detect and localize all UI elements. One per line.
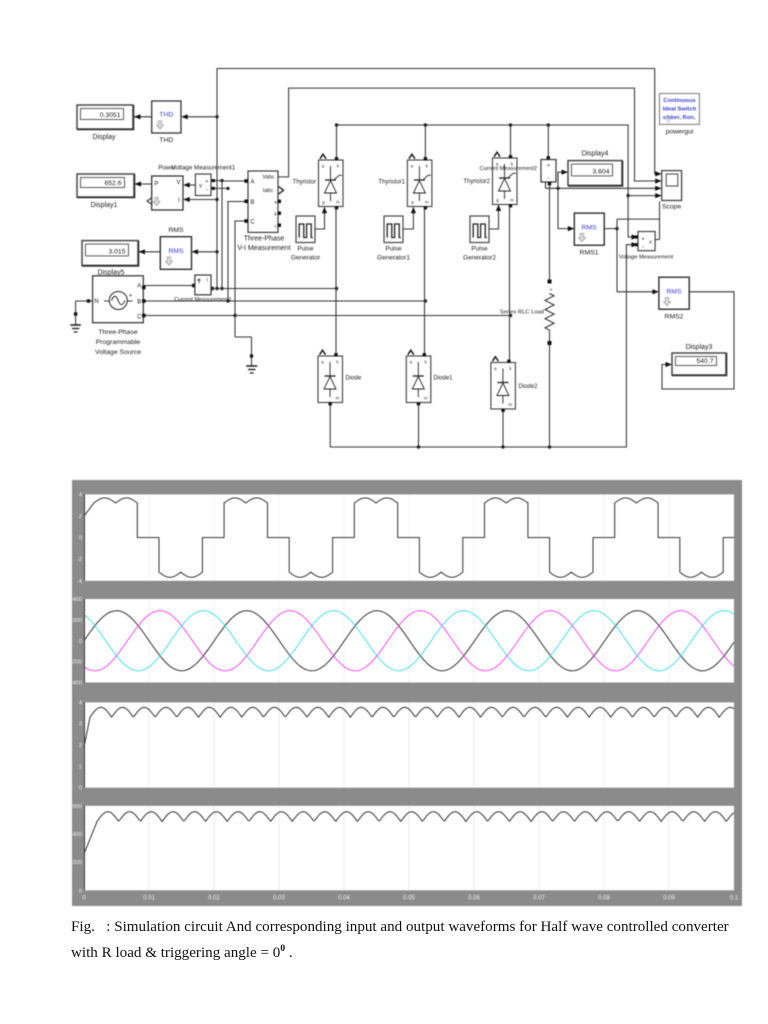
svg-text:652.6: 652.6 <box>104 180 121 187</box>
svg-text:0: 0 <box>79 888 82 894</box>
svg-text:0.09: 0.09 <box>663 896 675 902</box>
svg-text:Continuous: Continuous <box>663 98 695 104</box>
svg-text:THD: THD <box>159 112 173 119</box>
svg-text:-2: -2 <box>77 557 82 563</box>
svg-text:N: N <box>94 299 98 305</box>
svg-text:Diode1: Diode1 <box>434 376 454 382</box>
svg-text:m: m <box>336 396 340 401</box>
svg-text:0.1: 0.1 <box>730 896 739 902</box>
svg-text:powergui: powergui <box>666 129 694 136</box>
svg-text:m: m <box>425 200 429 205</box>
svg-text:600: 600 <box>72 804 82 810</box>
svg-text:1: 1 <box>79 764 82 770</box>
svg-text:Iabc: Iabc <box>263 188 274 194</box>
svg-text:Pulse: Pulse <box>297 246 314 253</box>
svg-text:0: 0 <box>79 536 82 542</box>
svg-text:3: 3 <box>79 722 82 728</box>
svg-text:+: + <box>642 237 645 243</box>
svg-text:+: + <box>547 163 550 169</box>
svg-text:-: - <box>642 245 644 251</box>
svg-text:m: m <box>424 396 428 401</box>
svg-text:Current Measurement1: Current Measurement1 <box>174 297 232 303</box>
svg-text:Current Measurement2: Current Measurement2 <box>479 166 537 172</box>
svg-text:3.015: 3.015 <box>108 248 125 255</box>
svg-text:0.05: 0.05 <box>403 896 415 902</box>
svg-text:Ideal Switch: Ideal Switch <box>663 107 697 113</box>
svg-text:200: 200 <box>72 860 82 866</box>
svg-text:V: V <box>176 180 180 186</box>
svg-text:-400: -400 <box>72 681 82 687</box>
svg-text:Series RLC Load: Series RLC Load <box>500 310 544 316</box>
svg-text:Display: Display <box>93 134 116 141</box>
svg-text:+: + <box>129 294 133 300</box>
svg-text:+: + <box>549 288 552 294</box>
svg-text:Programmable: Programmable <box>96 339 141 346</box>
svg-text:400: 400 <box>72 832 82 838</box>
svg-text:Generator2: Generator2 <box>463 255 496 262</box>
svg-text:RMS: RMS <box>168 227 184 234</box>
svg-text:Scope: Scope <box>662 204 681 211</box>
svg-text:Voltage Source: Voltage Source <box>95 349 141 356</box>
svg-text:0.07: 0.07 <box>533 896 545 902</box>
svg-text:C: C <box>250 220 255 226</box>
svg-text:ubber, Ron,: ubber, Ron, <box>664 115 696 121</box>
svg-text:0.03: 0.03 <box>273 896 285 902</box>
svg-text:0.06: 0.06 <box>468 896 480 902</box>
svg-text:Voltage Measurement: Voltage Measurement <box>619 255 674 261</box>
svg-text:Pulse: Pulse <box>471 246 488 253</box>
svg-text:P: P <box>154 182 158 188</box>
svg-text:Voltage Measurement1: Voltage Measurement1 <box>172 165 236 172</box>
svg-text:RMS: RMS <box>581 225 597 232</box>
svg-text:Display3: Display3 <box>686 344 713 351</box>
svg-text:m: m <box>509 402 513 407</box>
svg-text:0.04: 0.04 <box>338 896 350 902</box>
svg-text:RMS: RMS <box>666 289 682 296</box>
svg-text:-: - <box>547 175 549 182</box>
svg-text:-: - <box>206 188 208 194</box>
svg-text:-4: -4 <box>77 579 83 585</box>
svg-text:Thyristor: Thyristor <box>293 180 316 186</box>
svg-text:RMS1: RMS1 <box>580 250 599 257</box>
svg-text:RMS2: RMS2 <box>665 314 684 321</box>
svg-text:Diode: Diode <box>346 376 362 382</box>
svg-text:Vabc: Vabc <box>262 175 274 181</box>
svg-text:i: i <box>206 278 207 284</box>
svg-text:B: B <box>137 299 141 305</box>
svg-text:400: 400 <box>72 597 82 603</box>
svg-text:m: m <box>510 198 514 203</box>
svg-text:v: v <box>649 240 652 246</box>
svg-text:3.604: 3.604 <box>592 168 609 175</box>
svg-text:Generator: Generator <box>291 255 321 262</box>
svg-text:Generator1: Generator1 <box>377 255 410 262</box>
svg-text:0: 0 <box>79 639 82 645</box>
svg-text:RMS: RMS <box>168 248 184 255</box>
svg-text:0.08: 0.08 <box>598 896 610 902</box>
svg-text:m: m <box>336 200 340 205</box>
svg-text:Three-Phase: Three-Phase <box>244 236 285 243</box>
svg-text:+: + <box>205 179 208 185</box>
svg-text:2: 2 <box>79 743 82 749</box>
svg-text:0.01: 0.01 <box>143 896 155 902</box>
svg-text:0.3051: 0.3051 <box>100 112 121 119</box>
svg-text:A: A <box>250 180 254 186</box>
svg-text:Thyristor2: Thyristor2 <box>463 179 490 185</box>
svg-text:Diode2: Diode2 <box>519 384 539 390</box>
svg-text:A: A <box>137 284 141 290</box>
svg-text:540.7: 540.7 <box>696 358 713 365</box>
svg-text:Three-Phase: Three-Phase <box>98 329 138 336</box>
svg-text:Pulse: Pulse <box>385 246 402 253</box>
svg-text:Thyristor1: Thyristor1 <box>378 180 405 186</box>
svg-text:2: 2 <box>79 514 82 520</box>
svg-text:Display4: Display4 <box>582 150 609 157</box>
svg-text:v: v <box>199 184 202 190</box>
svg-text:B: B <box>250 200 254 206</box>
svg-text:THD: THD <box>159 137 173 144</box>
svg-text:C: C <box>137 315 142 321</box>
svg-text:V-I Measurement: V-I Measurement <box>237 245 290 252</box>
svg-text:0: 0 <box>79 786 82 792</box>
svg-text:0.02: 0.02 <box>208 896 220 902</box>
svg-text:-200: -200 <box>72 660 82 666</box>
svg-text:200: 200 <box>72 618 82 624</box>
svg-text:Display1: Display1 <box>91 202 118 209</box>
